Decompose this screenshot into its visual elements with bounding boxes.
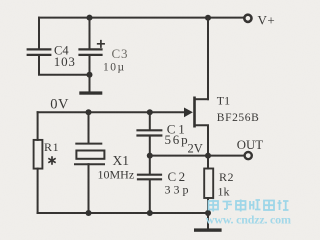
wire R2 bottom bbox=[207, 198, 209, 213]
ground under C3 bbox=[79, 91, 102, 94]
resistor R2 bbox=[204, 169, 213, 199]
wire OUT bbox=[208, 155, 244, 157]
wire 0V gate rail bbox=[38, 111, 185, 113]
wire C1 top bbox=[149, 112, 151, 130]
node junction 2V bbox=[147, 153, 153, 159]
wire to main ground bbox=[207, 213, 209, 228]
node junction top rail drain bbox=[205, 15, 211, 21]
terminal OUT bbox=[245, 152, 252, 159]
node junction source 2V bbox=[205, 153, 211, 159]
resistor R1 bbox=[34, 140, 43, 169]
terminal V+ bbox=[244, 15, 251, 22]
node junction C4 C3 ground bbox=[87, 72, 93, 78]
wire R2 top bbox=[207, 156, 209, 169]
node junction R2 ground bbox=[205, 210, 211, 216]
node junction gate rail C1 bbox=[147, 109, 153, 115]
transistor T1 bbox=[184, 97, 208, 156]
crystal X1 bbox=[75, 144, 104, 165]
wire C3 top bbox=[89, 18, 91, 49]
wire C4 top bbox=[38, 18, 40, 49]
wire X1 bottom bbox=[88, 164, 90, 213]
capacitor C2 bbox=[138, 175, 161, 180]
wire drain vertical bbox=[207, 18, 209, 99]
wire X1 top bbox=[88, 112, 90, 143]
wire C1 bottom bbox=[149, 136, 151, 156]
wire top V+ rail bbox=[39, 17, 244, 19]
wire 2V node bbox=[150, 155, 208, 157]
capacitor C3 polarity plus bbox=[98, 41, 104, 47]
node junction gate rail X1 bbox=[86, 109, 92, 115]
ground main bbox=[194, 228, 222, 231]
label R1 star bbox=[48, 156, 55, 165]
node junction top rail C3 bbox=[87, 15, 93, 21]
wire C3 bottom bbox=[89, 55, 91, 74]
wire C4 bottom bbox=[39, 55, 90, 74]
wire C2 top bbox=[149, 156, 151, 175]
capacitor C1 bbox=[138, 130, 162, 135]
capacitor C3 bbox=[80, 49, 102, 55]
node junction bottom rail X1 bbox=[86, 210, 92, 216]
wire R1 top bbox=[37, 112, 39, 140]
watermark site name bbox=[209, 200, 289, 212]
wire R1 bottom bbox=[37, 169, 39, 213]
node junction bottom rail C2 bbox=[147, 210, 153, 216]
capacitor C4 bbox=[28, 49, 51, 55]
wire to ground under C3 bbox=[89, 75, 91, 92]
wire C2 bottom bbox=[149, 180, 151, 213]
wire bottom rail bbox=[38, 212, 208, 214]
